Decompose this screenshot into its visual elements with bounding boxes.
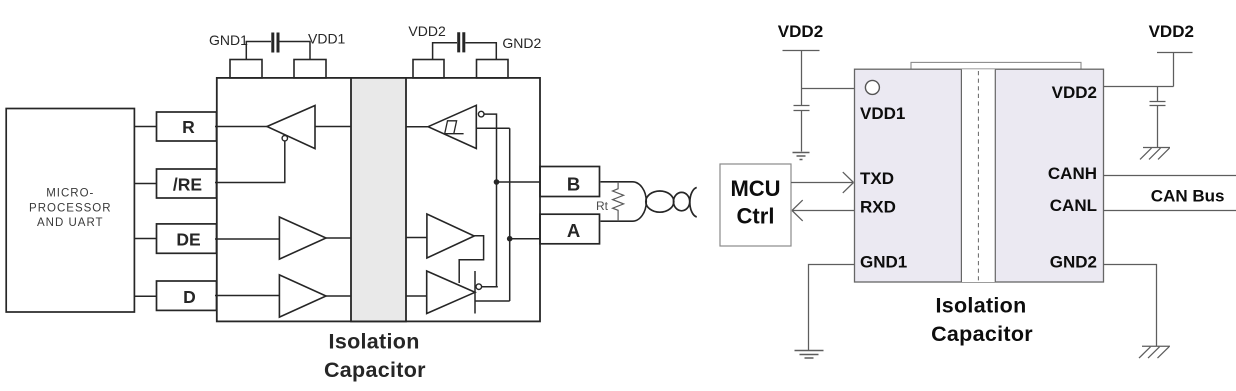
svg-text:GND2: GND2 <box>502 35 541 51</box>
svg-text:GND1: GND1 <box>860 253 907 272</box>
svg-text:CANH: CANH <box>1048 164 1097 183</box>
svg-text:Capacitor: Capacitor <box>931 322 1033 346</box>
svg-text:DE: DE <box>176 230 200 250</box>
svg-text:VDD1: VDD1 <box>860 104 905 123</box>
svg-text:Rt: Rt <box>596 199 609 213</box>
svg-text:Ctrl: Ctrl <box>737 204 775 229</box>
svg-text:AND UART: AND UART <box>37 217 104 229</box>
svg-text:B: B <box>567 173 580 194</box>
svg-text:VDD2: VDD2 <box>408 23 446 39</box>
svg-text:TXD: TXD <box>860 169 894 188</box>
svg-text:CANL: CANL <box>1050 196 1097 215</box>
svg-text:VDD2: VDD2 <box>1052 83 1097 102</box>
svg-text:MICRO-: MICRO- <box>46 188 94 200</box>
svg-text:R: R <box>182 117 195 137</box>
svg-text:Isolation: Isolation <box>935 294 1026 318</box>
svg-text:GND2: GND2 <box>1050 253 1097 272</box>
svg-text:Isolation: Isolation <box>329 330 420 354</box>
svg-text:A: A <box>567 220 580 241</box>
svg-text:VDD2: VDD2 <box>778 22 823 41</box>
svg-text:Capacitor: Capacitor <box>324 358 426 382</box>
svg-text:VDD1: VDD1 <box>308 31 346 47</box>
svg-text:VDD2: VDD2 <box>1149 22 1194 41</box>
svg-text:MCU: MCU <box>730 176 780 201</box>
svg-text:GND1: GND1 <box>209 32 248 48</box>
svg-text:CAN Bus: CAN Bus <box>1151 187 1225 206</box>
svg-text:/RE: /RE <box>173 174 202 194</box>
svg-text:RXD: RXD <box>860 198 896 217</box>
svg-text:D: D <box>183 287 196 307</box>
svg-text:PROCESSOR: PROCESSOR <box>29 202 112 214</box>
